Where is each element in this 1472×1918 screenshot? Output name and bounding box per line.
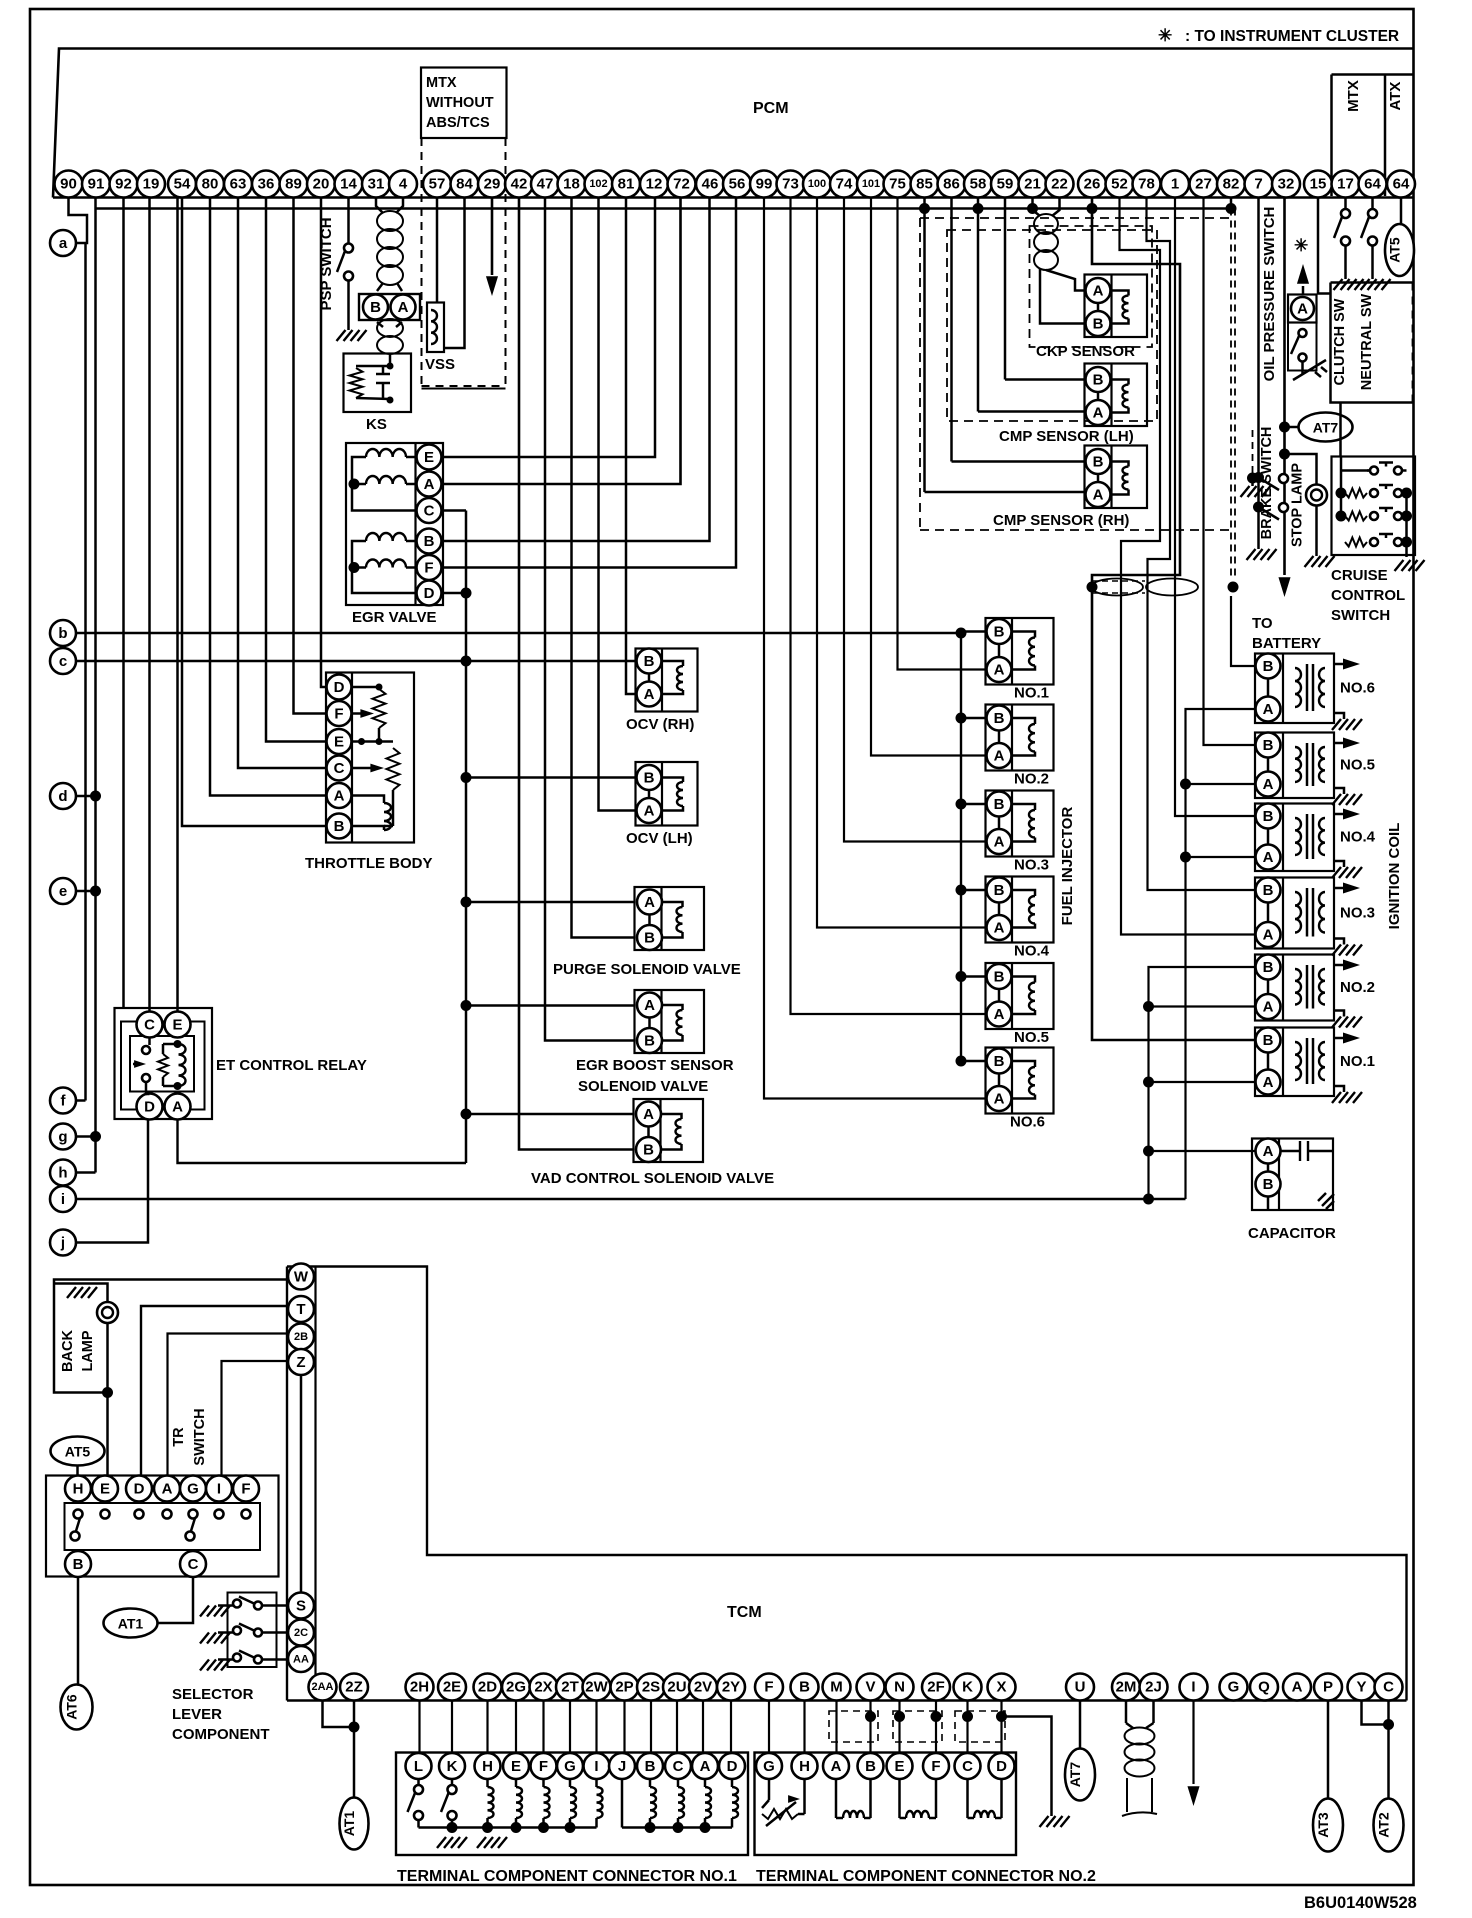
svg-text:B: B: [1263, 1176, 1274, 1193]
fuel injector NO.3: [986, 791, 1054, 857]
ET control relay contacts and coil: [133, 1038, 186, 1095]
ET control relay pins C E D A: [137, 1012, 191, 1120]
svg-text:B: B: [1263, 737, 1274, 754]
AT6 connector oval: [61, 1685, 93, 1730]
EGR valve coil 1: [366, 449, 406, 457]
KS knock sensor box: [344, 354, 412, 413]
wire pin to injector NO.1 A: [898, 198, 987, 670]
svg-text:17: 17: [1337, 176, 1354, 193]
wire bus to injector NO.6 B: [961, 1060, 987, 1063]
OCV (RH) box: [636, 649, 698, 712]
node d: [50, 783, 76, 809]
svg-text:A: A: [994, 920, 1005, 937]
svg-text:75: 75: [889, 176, 906, 193]
cruise control switch internals: [1336, 457, 1413, 558]
svg-text:36: 36: [258, 176, 275, 193]
node e: [50, 878, 76, 904]
node h: [50, 1160, 76, 1186]
VSS speed sensor: [427, 303, 444, 353]
svg-text:A: A: [172, 1099, 183, 1116]
svg-text:B: B: [1263, 882, 1274, 899]
svg-text:A: A: [1093, 487, 1104, 504]
svg-text:92: 92: [115, 176, 132, 193]
svg-text:H: H: [482, 1758, 493, 1775]
ground capacitor: [1318, 1193, 1334, 1209]
wire TCM P to AT3: [1327, 1701, 1330, 1799]
svg-text:CMP SENSOR (RH): CMP SENSOR (RH): [993, 512, 1129, 529]
svg-text:100: 100: [808, 178, 826, 190]
svg-text:V: V: [865, 1679, 875, 1696]
wire pin29 arrow (MTX without ABS/TCS): [491, 198, 494, 276]
svg-text:CLUTCH SW: CLUTCH SW: [1332, 298, 1348, 385]
svg-text:NO.1: NO.1: [1014, 685, 1049, 702]
svg-text:F: F: [931, 1758, 940, 1775]
ground selector row 1: [200, 1606, 230, 1617]
svg-text:NO.1: NO.1: [1340, 1053, 1375, 1070]
svg-text:G: G: [763, 1758, 775, 1775]
svg-text:NO.5: NO.5: [1340, 757, 1375, 774]
svg-text:X: X: [996, 1679, 1006, 1696]
TR switch pins B C: [65, 1551, 206, 1577]
svg-text:A: A: [1263, 1074, 1274, 1091]
svg-text:63: 63: [230, 176, 247, 193]
dashed MTX option box: [422, 138, 506, 389]
svg-text:OIL PRESSURE SWITCH: OIL PRESSURE SWITCH: [1261, 207, 1278, 382]
svg-text:PCM: PCM: [753, 100, 789, 117]
ground clutch switch: [1334, 279, 1364, 290]
CKP sensor: [1036, 275, 1147, 361]
svg-text:T: T: [296, 1301, 305, 1318]
AT1 connector oval: [104, 1609, 158, 1638]
terminal connector NO.2 variable resistor G/H: [762, 1779, 805, 1826]
wire pin80 to throttle A: [210, 198, 327, 796]
svg-text:✳: ✳: [1158, 26, 1172, 45]
wire EGR A to pin72: [442, 198, 681, 485]
wire pin32 main line: [1283, 198, 1286, 576]
svg-text:CMP SENSOR (LH): CMP SENSOR (LH): [999, 428, 1134, 445]
svg-text:Y: Y: [1356, 1679, 1366, 1696]
svg-text:29: 29: [484, 176, 501, 193]
ignition A common bus 2 (NO.6/NO.5/NO.4 to i net): [1180, 709, 1256, 1199]
ground ignition coil NO.2: [1334, 1011, 1344, 1017]
svg-text:2G: 2G: [506, 1679, 526, 1696]
svg-text:B: B: [334, 818, 345, 835]
svg-text:B: B: [1263, 1032, 1274, 1049]
svg-text:15: 15: [1310, 176, 1327, 193]
svg-text:✳: ✳: [1294, 236, 1308, 255]
wire pin27 to ignition coil NO.5 B: [1204, 198, 1256, 746]
svg-text:64: 64: [1393, 176, 1410, 193]
brake switch: [1253, 427, 1288, 540]
svg-text:A: A: [994, 834, 1005, 851]
wire EGR F to pin56: [442, 198, 737, 568]
MTX WITHOUT ABS/TCS label box: [421, 68, 507, 139]
svg-text:A: A: [994, 662, 1005, 679]
svg-text:B6U0140W528: B6U0140W528: [1304, 1894, 1417, 1912]
svg-text:101: 101: [862, 178, 880, 190]
svg-text:STOP LAMP: STOP LAMP: [1290, 463, 1306, 547]
svg-text:B: B: [643, 1142, 654, 1159]
svg-text:U: U: [1075, 1679, 1086, 1696]
svg-text:B: B: [994, 969, 1005, 986]
svg-text:A: A: [1263, 927, 1274, 944]
svg-text:C: C: [144, 1017, 155, 1034]
sensor shield bus under pins (from pin91): [96, 207, 1236, 210]
wire common bus to OCV LH B: [466, 776, 636, 779]
EGR valve coil 2: [366, 476, 406, 484]
svg-text:a: a: [59, 235, 68, 252]
ground brake switch: [1247, 549, 1277, 560]
svg-text:E: E: [172, 1017, 182, 1034]
svg-text:26: 26: [1084, 176, 1101, 193]
solenoid dashed boxes on TCM M/V N/2F K/X: [829, 1711, 1007, 1742]
svg-text:E: E: [334, 734, 344, 751]
wire pin86 to CMP RH B: [952, 460, 1086, 463]
wire pin64 to AT5: [1400, 198, 1403, 225]
wire TCM U to AT7: [1079, 1701, 1082, 1750]
svg-text:D: D: [334, 679, 345, 696]
svg-text:VAD CONTROL SOLENOID VALVE: VAD CONTROL SOLENOID VALVE: [531, 1170, 774, 1187]
svg-text:b: b: [58, 625, 67, 642]
svg-text:NO.2: NO.2: [1014, 771, 1049, 788]
node b: [50, 620, 76, 646]
svg-text:h: h: [58, 1165, 67, 1182]
svg-text:2W: 2W: [585, 1679, 608, 1696]
wire pin19 to relay C: [148, 198, 151, 1012]
wire TCM Z to TR switch I: [222, 1361, 289, 1475]
svg-text:74: 74: [836, 176, 853, 193]
wire pin58 to CMP LH A: [978, 410, 1086, 413]
svg-text:H: H: [799, 1758, 810, 1775]
ground selector row 3: [200, 1660, 230, 1671]
VAD control solenoid valve: [634, 1099, 704, 1162]
svg-text:B: B: [644, 1033, 655, 1050]
PCM connector pins 90..64: [55, 171, 1416, 198]
svg-text:ABS/TCS: ABS/TCS: [426, 115, 490, 131]
svg-text:E: E: [424, 449, 434, 466]
ground terminal connector NO.1 (2): [477, 1837, 507, 1848]
fuel injector supply bus (b net): [960, 633, 962, 1061]
TR switch box: [46, 1476, 279, 1577]
TCM connector pin row: [309, 1674, 1403, 1701]
PSP switch: [318, 217, 353, 330]
purge solenoid valve: [635, 887, 705, 950]
svg-text:C: C: [962, 1758, 973, 1775]
svg-text:E: E: [894, 1758, 904, 1775]
svg-text:G: G: [187, 1481, 199, 1498]
wire bus to injector NO.2 B: [961, 717, 987, 720]
svg-text:AA: AA: [293, 1654, 309, 1666]
EGR valve coil 3: [366, 533, 406, 541]
node i: [50, 1186, 76, 1212]
wire pin92 vertical: [122, 198, 125, 1008]
svg-text:57: 57: [429, 176, 446, 193]
terminal component connector NO.2 box: [755, 1753, 1017, 1856]
wire common bus to purge A: [466, 901, 635, 904]
throttle body TPS resistor 1: [352, 684, 386, 729]
svg-text:Z: Z: [296, 1354, 305, 1371]
shield dashed box outer (CMP RH): [920, 218, 1231, 530]
arrow up to instrument cluster: [1297, 264, 1309, 295]
svg-text:31: 31: [368, 176, 385, 193]
ground terminal connector NO.1 (1): [437, 1837, 467, 1848]
svg-text:B: B: [1263, 808, 1274, 825]
svg-text:4: 4: [399, 176, 408, 193]
svg-text:IGNITION COIL: IGNITION COIL: [1386, 823, 1403, 930]
svg-text:2M: 2M: [1116, 1679, 1137, 1696]
wire pin85 to CMP RH A: [925, 491, 1086, 494]
wire pin18 to purge B: [572, 198, 635, 938]
svg-text:A: A: [424, 476, 435, 493]
wire pin to injector NO.2 A: [871, 198, 987, 756]
svg-text:B: B: [994, 796, 1005, 813]
wire pin to injector NO.3 A: [844, 198, 987, 842]
wire node a to node f (left vertical): [84, 243, 87, 1101]
wire pin59 to CMP LH B: [1005, 378, 1086, 381]
KS connector B A: [359, 294, 420, 320]
ground ignition coil NO.6: [1334, 713, 1344, 719]
svg-text:19: 19: [143, 176, 160, 193]
svg-text:EGR BOOST SENSOR: EGR BOOST SENSOR: [576, 1057, 734, 1074]
AT3 connector oval: [1313, 1799, 1343, 1852]
svg-text:MTX: MTX: [426, 75, 457, 91]
svg-text:22: 22: [1051, 176, 1068, 193]
svg-text:SELECTOR: SELECTOR: [172, 1686, 254, 1703]
ignition coil NO.3: [1255, 878, 1334, 949]
EGR valve pins E A C B F D: [417, 445, 442, 606]
fuel injector NO.5: [986, 963, 1054, 1029]
wires TCM pins to terminal connector NO.1: [420, 1701, 732, 1753]
svg-text:99: 99: [756, 176, 773, 193]
svg-text:e: e: [59, 883, 67, 900]
ground back lamp: [67, 1287, 97, 1298]
TCM left pins W T 2B Z: [288, 1264, 314, 1593]
svg-text:2C: 2C: [294, 1627, 308, 1639]
wire EGR E to pin12: [442, 198, 656, 458]
svg-text:B: B: [1263, 959, 1274, 976]
wire pin14 to PSP switch: [347, 198, 350, 244]
wire pin82 to ignition coil NO.6 B (with shield crossover): [1231, 198, 1256, 667]
svg-text:2U: 2U: [667, 1679, 686, 1696]
svg-text:CONTROL: CONTROL: [1331, 587, 1405, 604]
svg-text:56: 56: [729, 176, 746, 193]
svg-text:E: E: [100, 1481, 110, 1498]
svg-text:AT7: AT7: [1313, 420, 1339, 436]
wire TR C to AT1: [158, 1578, 193, 1624]
svg-text:C: C: [673, 1758, 684, 1775]
svg-text:2AA: 2AA: [311, 1681, 333, 1693]
svg-text:B: B: [73, 1556, 84, 1573]
svg-text:1: 1: [1171, 176, 1179, 193]
svg-text:NO.6: NO.6: [1340, 680, 1375, 697]
svg-text:32: 32: [1278, 176, 1295, 193]
svg-text:B: B: [645, 1758, 656, 1775]
svg-text:D: D: [134, 1481, 145, 1498]
svg-text:90: 90: [60, 176, 77, 193]
svg-text:A: A: [1093, 405, 1104, 422]
terminal component connector NO.1 box: [396, 1753, 748, 1856]
svg-text:KS: KS: [366, 416, 387, 433]
svg-text:OCV (LH): OCV (LH): [626, 830, 693, 847]
wire to relay E: [176, 198, 179, 1012]
svg-text:BACK: BACK: [60, 1330, 76, 1372]
fuel injector NO.1: [986, 618, 1054, 685]
terminal connector NO.2 solenoid C/D: [968, 1779, 1002, 1818]
svg-text:AT3: AT3: [1315, 1812, 1331, 1838]
svg-text:D: D: [727, 1758, 738, 1775]
svg-text:B: B: [424, 533, 435, 550]
svg-text:2F: 2F: [927, 1679, 945, 1696]
EGR boost sensor solenoid valve: [635, 990, 705, 1053]
svg-text:SWITCH: SWITCH: [192, 1408, 208, 1465]
svg-text:TERMINAL COMPONENT CONNECTOR N: TERMINAL COMPONENT CONNECTOR NO.1: [397, 1868, 737, 1885]
wire pin89 to throttle F: [294, 198, 327, 714]
svg-text:A: A: [644, 894, 655, 911]
svg-text:BATTERY: BATTERY: [1252, 635, 1321, 652]
wire TCM 2M/2J twisted pair: [1122, 1701, 1157, 1817]
throttle body TPS resistor 2: [352, 728, 400, 826]
svg-text:102: 102: [589, 178, 607, 190]
svg-text:N: N: [894, 1679, 905, 1696]
ignition coil NO.4 HT arrow: [1334, 813, 1352, 816]
svg-text:20: 20: [313, 176, 330, 193]
wire relay A to solenoid common bus: [178, 1120, 467, 1164]
svg-text:OCV (RH): OCV (RH): [626, 716, 694, 733]
svg-text:NEUTRAL SW: NEUTRAL SW: [1359, 293, 1375, 390]
svg-text:58: 58: [970, 176, 987, 193]
fuel injector NO.4: [986, 877, 1054, 943]
twisted pair KS connector to KS: [377, 319, 403, 362]
svg-text:D: D: [144, 1099, 155, 1116]
svg-text:I: I: [1191, 1679, 1195, 1696]
svg-text:G: G: [564, 1758, 576, 1775]
svg-text:TERMINAL COMPONENT CONNECTOR N: TERMINAL COMPONENT CONNECTOR NO.2: [756, 1868, 1096, 1885]
svg-text:AT1: AT1: [118, 1616, 144, 1632]
svg-text:86: 86: [943, 176, 960, 193]
wire common bus to EGR boost A: [466, 1004, 635, 1007]
svg-text:91: 91: [88, 176, 105, 193]
oil pressure switch: [1288, 323, 1327, 381]
svg-text:B: B: [644, 653, 655, 670]
svg-text:47: 47: [537, 176, 554, 193]
ground PSP switch: [337, 330, 367, 341]
throttle body coil: [352, 796, 394, 831]
svg-text:K: K: [962, 1679, 973, 1696]
svg-text:C: C: [1383, 1679, 1394, 1696]
svg-text:CKP SENSOR: CKP SENSOR: [1036, 343, 1135, 360]
terminal connector NO.2 solenoid A/B: [836, 1779, 871, 1818]
svg-text:54: 54: [174, 176, 191, 193]
svg-text:2D: 2D: [478, 1679, 497, 1696]
wire pin32 to AT7: [1285, 426, 1299, 429]
svg-text:7: 7: [1254, 176, 1262, 193]
svg-text:A: A: [1093, 283, 1104, 300]
svg-text:NO.3: NO.3: [1014, 857, 1049, 874]
svg-text:MTX: MTX: [1345, 80, 1362, 112]
svg-text:2J: 2J: [1145, 1679, 1162, 1696]
svg-text:NO.3: NO.3: [1340, 904, 1375, 921]
stop lamp: [1279, 449, 1327, 557]
svg-text:F: F: [424, 560, 433, 577]
ignition coil NO.3 HT arrow: [1334, 887, 1352, 890]
ground TCM X branch: [1040, 1816, 1070, 1827]
svg-text:LAMP: LAMP: [80, 1330, 96, 1371]
svg-text:H: H: [73, 1481, 84, 1498]
terminal connector NO.1 solenoid coils: [419, 1779, 739, 1833]
svg-text:j: j: [60, 1235, 65, 1252]
svg-text:AT7: AT7: [1067, 1762, 1083, 1788]
wire bus to injector NO.5 B: [961, 975, 987, 978]
CMP sensor (LH): [999, 364, 1147, 446]
svg-text:B: B: [1093, 316, 1104, 333]
svg-text:AT1: AT1: [341, 1811, 357, 1837]
svg-text:PURGE SOLENOID VALVE: PURGE SOLENOID VALVE: [553, 961, 741, 978]
CMP sensor (RH): [993, 446, 1147, 530]
svg-text:2P: 2P: [615, 1679, 633, 1696]
svg-text:B: B: [644, 930, 655, 947]
node a: [50, 230, 76, 256]
shield dashed box inner (CKP): [1030, 226, 1153, 347]
svg-text:A: A: [644, 997, 655, 1014]
svg-text:J: J: [618, 1758, 626, 1775]
wire TCM C to AT2: [1387, 1701, 1390, 1799]
svg-text:52: 52: [1111, 176, 1128, 193]
svg-text:AT2: AT2: [1376, 1812, 1392, 1838]
svg-text:VSS: VSS: [425, 356, 455, 373]
svg-text:TCM: TCM: [727, 1604, 762, 1621]
wire pin47 to EGR boost B: [545, 198, 635, 1041]
ignition coil NO.1 HT arrow: [1334, 1037, 1352, 1040]
svg-text:A: A: [644, 803, 655, 820]
svg-text:g: g: [58, 1129, 67, 1146]
svg-text:B: B: [1093, 372, 1104, 389]
wire TCM Y to C line: [1362, 1701, 1389, 1725]
svg-text:AT5: AT5: [1387, 237, 1403, 263]
svg-text:A: A: [994, 1006, 1005, 1023]
EGR valve box: [346, 443, 443, 605]
ground neutral switch: [1361, 279, 1391, 290]
svg-text:ET CONTROL RELAY: ET CONTROL RELAY: [216, 1057, 367, 1074]
node j: [50, 1230, 76, 1256]
svg-text:A: A: [1263, 776, 1274, 793]
ignition coil NO.5: [1255, 733, 1334, 799]
TR switch pins H E D A G I F: [65, 1476, 259, 1502]
svg-text:A: A: [398, 299, 409, 316]
svg-text:F: F: [241, 1481, 250, 1498]
ignition coil NO.1: [1255, 1028, 1334, 1097]
svg-text:2Z: 2Z: [345, 1679, 363, 1696]
wire pin26 to ignition coil NO.1 B: [1092, 198, 1256, 1041]
svg-text:A: A: [162, 1481, 173, 1498]
wire TCM 2B to TR switch A: [168, 1334, 289, 1475]
wire pin to injector NO.5 A: [791, 198, 987, 1015]
svg-text:A: A: [643, 1106, 654, 1123]
svg-text:NO.4: NO.4: [1014, 943, 1050, 960]
wire EGR C to solenoid common bus: [442, 509, 467, 512]
svg-text:THROTTLE BODY: THROTTLE BODY: [305, 855, 433, 872]
wire bus to injector NO.3 B: [961, 803, 987, 806]
terminal connector NO.1 switches L K: [408, 1779, 457, 1828]
wire EGR B to pin46: [442, 198, 710, 542]
wire pin20 to throttle D: [321, 198, 327, 688]
svg-text:WITHOUT: WITHOUT: [426, 95, 494, 111]
ground cruise control switch: [1395, 560, 1425, 571]
wire pin78 to ignition coil NO.3 B: [1147, 198, 1256, 891]
cruise control switch box: [1332, 457, 1416, 556]
svg-text:81: 81: [618, 176, 635, 193]
svg-text:SOLENOID VALVE: SOLENOID VALVE: [578, 1078, 708, 1095]
svg-text:NO.6: NO.6: [1010, 1114, 1045, 1131]
